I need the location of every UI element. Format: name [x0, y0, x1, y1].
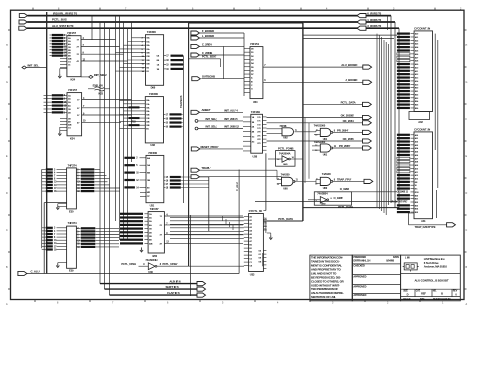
svg-text:Andover, MA 01810: Andover, MA 01810 [424, 265, 448, 269]
svg-text:INIT_SEL(: INIT_SEL( [206, 125, 217, 129]
svg-text:B50: B50 [153, 254, 158, 258]
flag PR_2064 [363, 130, 372, 134]
svg-text:6_IR IRS T0: 6_IR IRS T0 [367, 12, 381, 16]
IC U38 74F139 [251, 114, 263, 153]
wire PCTL_DATA heavy [303, 207, 399, 209]
svg-text:ALU_STAT IN T0: ALU_STAT IN T0 [52, 24, 74, 28]
bus PCTL_BUS [19, 20, 27, 24]
svg-text:INIT_SEL2: INIT_SEL2 [94, 73, 107, 77]
svg-text:FLAP IR 6: FLAP IR 6 [167, 291, 180, 295]
svg-text:ANBET: ANBET [202, 108, 211, 112]
svg-text:74F300: 74F300 [149, 92, 158, 96]
wire left feed vertical [41, 169, 43, 248]
svg-text:L_BOXED: L_BOXED [202, 34, 214, 38]
wire left vertical x46.7 [46, 12, 48, 274]
svg-text:PCTL_DATA: PCTL_DATA [341, 100, 356, 104]
flag L_BOXED [191, 36, 200, 40]
wire bundle left verticals [99, 22, 101, 284]
svg-text:PCTL_UFSH': PCTL_UFSH' [163, 262, 178, 266]
wire vertical TRAPBUS x183.6 [183, 56, 185, 203]
svg-text:O_1968 11: O_1968 11 [397, 190, 409, 194]
wire C_2RNB branch [189, 58, 221, 60]
svg-text:PR_2065': PR_2065' [339, 144, 351, 148]
svg-text:74F300: 74F300 [147, 30, 156, 34]
svg-text:74F374: 74F374 [68, 221, 77, 225]
svg-text:74F157: 74F157 [150, 207, 159, 211]
svg-text:OK_2055B': OK_2055B' [341, 113, 355, 117]
bus ALU_STAT IN T0 [19, 26, 27, 30]
wire U31 outputs vertical [208, 177, 210, 231]
svg-text:CYCOUNT_IN: CYCOUNT_IN [414, 26, 430, 30]
wire lines x302.9 to bundle [303, 34, 397, 36]
svg-text:K23: K23 [99, 92, 104, 96]
flag PCTL_DATA [363, 102, 372, 106]
IC U32 74F300 [145, 97, 163, 143]
svg-text:GND: GND [321, 204, 326, 206]
svg-text:74F151: 74F151 [250, 42, 259, 46]
bus SHIFT IR 6 [105, 288, 198, 290]
svg-text:U64: U64 [253, 100, 258, 104]
svg-text:1G: 1G [252, 136, 255, 138]
svg-text:U61: U61 [323, 153, 328, 157]
svg-text:W: W [415, 185, 417, 187]
svg-text:74AS004H: 74AS004H [145, 258, 157, 262]
svg-text:A32: A32 [418, 120, 423, 124]
svg-text:PCTL_FONB: PCTL_FONB [278, 147, 294, 151]
svg-text:INIT_2068 12: INIT_2068 12 [224, 125, 239, 129]
svg-text:APPROVED: APPROVED [353, 285, 366, 288]
wire gate feeds [267, 128, 283, 130]
svg-text:SHIFT IR 6: SHIFT IR 6 [166, 285, 179, 289]
svg-text:1_IR IRS T0: 1_IR IRS T0 [367, 18, 381, 22]
svg-text:INIT_2064 5: INIT_2064 5 [224, 117, 238, 121]
svg-text:D: D [407, 293, 409, 297]
svg-text:TRAPBUS: TRAPBUS [179, 95, 183, 108]
svg-text:H: H [466, 44, 468, 47]
flag TRAPL [191, 168, 200, 172]
IC U31 74F300 [146, 155, 164, 202]
svg-text:74AS00: 74AS00 [322, 172, 331, 176]
svg-text:OK_2064: OK_2064 [343, 119, 355, 123]
svg-text:GND: GND [283, 164, 288, 166]
svg-text:C: C [466, 229, 468, 232]
wire U24 outputs [81, 39, 116, 41]
flag F_BOXED [191, 31, 200, 35]
svg-text:PCTL_BUS: PCTL_BUS [52, 18, 67, 22]
wire 74F139 to U33 vertical [265, 153, 267, 210]
svg-text:TRAPL': TRAPL' [201, 166, 211, 170]
svg-text:U60: U60 [323, 186, 328, 190]
flag 6_IR IRS T0 [357, 14, 366, 18]
svg-text:TRAP_FPU': TRAP_FPU' [337, 178, 352, 182]
svg-text:C_ALU: C_ALU [235, 182, 239, 191]
svg-text:DATE: DATE [393, 256, 400, 259]
flag OK_2064 [363, 121, 372, 125]
ground arrow U24 [58, 74, 61, 78]
wire PCTL_DATA flag line [303, 103, 363, 105]
wire bundle right verticals [376, 34, 378, 207]
svg-text:E30: E30 [69, 209, 74, 213]
IC E39 74F374 [67, 226, 77, 268]
svg-text:O_1968: O_1968 [340, 187, 350, 191]
svg-text:U60: U60 [283, 187, 288, 191]
flag C_ALU [18, 271, 27, 275]
svg-text:D: D [466, 192, 468, 195]
svg-text:K34: K34 [70, 137, 75, 141]
flag OK_2055B [363, 115, 372, 119]
wire E39 clock stubs [58, 262, 67, 264]
svg-text:U62: U62 [283, 136, 288, 140]
wire O_1968 row [352, 191, 397, 193]
svg-text:K24: K24 [71, 77, 76, 81]
flag TRAP_DATATYPE [447, 223, 456, 227]
svg-text:ALU_BOXED: ALU_BOXED [341, 63, 357, 67]
svg-text:APPROVED: APPROVED [353, 275, 366, 278]
svg-text:DRFRANHL.1H: DRFRANHL.1H [353, 258, 370, 262]
wire ALU_BOXED out [263, 66, 363, 68]
svg-text:PCTL_UFSH: PCTL_UFSH [121, 262, 136, 266]
wire TRAP_FPU out [332, 180, 364, 182]
svg-text:INIT_SEL(: INIT_SEL( [206, 117, 217, 121]
IC U64 74F151 [250, 47, 263, 99]
svg-text:RESET_PROC': RESET_PROC' [201, 145, 219, 149]
svg-text:U38: U38 [253, 154, 258, 158]
svg-text:PCTL_DATA: PCTL_DATA [278, 217, 293, 221]
svg-text:PR_2064': PR_2064' [337, 129, 349, 133]
title block logo cell [401, 255, 461, 301]
bus AUX IR 6 [100, 283, 197, 285]
wire staircase B50 to U33 [170, 216, 244, 218]
svg-text:INIT_SEL.: INIT_SEL. [28, 64, 40, 68]
svg-text:A/B: A/B [68, 57, 72, 60]
flag 1_IR IRS T0 [357, 20, 366, 24]
wire R_DATATYPE row [255, 201, 397, 203]
wire right of ICs [436, 190, 438, 218]
wire J_BOXED out [263, 81, 363, 83]
title block scale row [401, 296, 461, 298]
IC E30 74F374 [67, 168, 77, 209]
IC U24 74F157 [67, 36, 81, 77]
ground arrow U33 [269, 236, 272, 240]
svg-text:CHECKED: CHECKED [353, 265, 365, 268]
svg-text:B: B [441, 292, 443, 296]
IC U66 74F300 [146, 35, 164, 86]
wire E30 clock stubs [58, 203, 67, 205]
svg-text:J_BOXED: J_BOXED [345, 78, 357, 82]
svg-text:ALU CONTROL, B BOX BIT: ALU CONTROL, B BOX BIT [415, 279, 449, 283]
svg-text:NO.: NO. [433, 291, 437, 293]
svg-text:D: D [6, 192, 8, 195]
inverter box 74AS804 [314, 192, 351, 205]
IC A32 notch [409, 112, 430, 120]
svg-text:AUX IR 6: AUX IR 6 [169, 280, 181, 284]
svg-text:1G: 1G [68, 61, 71, 63]
svg-text:OUTBOXB: OUTBOXB [202, 75, 215, 79]
svg-text:74AS1000: 74AS1000 [314, 123, 326, 127]
svg-text:MR: MR [147, 192, 151, 194]
svg-text:CYCOUNT_IN: CYCOUNT_IN [414, 127, 430, 131]
flag OUTBOXB [192, 77, 201, 81]
wire enclosure heavy [188, 23, 190, 266]
svg-text:CYCTL_30: CYCTL_30 [249, 209, 263, 213]
IC B50 74F157 [148, 212, 164, 253]
svg-text:1G: 1G [68, 128, 71, 130]
bus IR10 IRL, IR IRS T0 [19, 14, 27, 18]
wire PCTL_DATA from U33 [263, 220, 303, 222]
svg-text:U33: U33 [250, 273, 255, 277]
svg-text:C_ALU: C_ALU [31, 269, 40, 273]
svg-text:U32: U32 [150, 143, 155, 147]
flag OK_2065 [363, 139, 372, 143]
flag ANBET [191, 110, 200, 114]
wire PR_2064 out [332, 131, 363, 133]
ground arrow K34 [58, 132, 61, 136]
svg-text:C_2RE4: C_2RE4 [202, 42, 212, 46]
svg-text:PCTL_DATA: PCTL_DATA [338, 205, 353, 209]
svg-text:INIT_ALU' 4: INIT_ALU' 4 [224, 108, 238, 112]
svg-text:REF: REF [421, 292, 426, 296]
flag TRAPL2 [191, 175, 200, 179]
svg-text:NTA: NTA [420, 298, 425, 301]
svg-text:74F300: 74F300 [148, 151, 157, 155]
svg-text:G: G [6, 81, 8, 84]
pin INIT_2068 [195, 127, 198, 130]
flag 3_IR IRS T0 [357, 26, 366, 30]
svg-text:OK_2065: OK_2065 [343, 137, 355, 141]
flag TRAP_FPU [364, 179, 373, 183]
svg-text:SIZE: SIZE [403, 291, 408, 293]
svg-text:74F139: 74F139 [251, 110, 260, 114]
svg-text:74F157: 74F157 [68, 88, 77, 92]
svg-text:E39: E39 [69, 269, 74, 273]
legal notice block [310, 255, 353, 301]
svg-text:D66: D66 [151, 86, 156, 90]
svg-text:A31: A31 [421, 219, 426, 223]
bus FLAP IR 6 [110, 294, 198, 296]
svg-text:IR10 IRL, IR IRS T0: IR10 IRL, IR IRS T0 [53, 11, 77, 15]
svg-text:SCALE: SCALE [403, 298, 411, 301]
wire RESET_PROC [191, 147, 200, 151]
svg-text:2G: 2G [252, 141, 255, 143]
IC K34 74F157 [67, 93, 82, 136]
svg-text:U36: U36 [148, 270, 153, 274]
flag C_2RE4 [191, 44, 200, 48]
svg-text:74F374: 74F374 [68, 163, 77, 167]
svg-text:CAT.: CAT. [416, 290, 421, 293]
svg-text:74AS804: 74AS804 [317, 192, 328, 196]
svg-text:SENTATIVE OF LMI.: SENTATIVE OF LMI. [311, 295, 336, 299]
svg-text:R_DATATYPE': R_DATATYPE' [392, 200, 408, 204]
flag C_2RNB [191, 53, 200, 57]
pin INIT_2064 [195, 120, 198, 123]
wire PR_2065 out [332, 147, 363, 149]
wire top-right bus turns [390, 16, 392, 203]
title block signature column [352, 255, 401, 301]
ground arrow B50 [140, 248, 143, 252]
flag INIT_SEL2 [89, 75, 93, 78]
flag J_BOXED [363, 80, 372, 84]
svg-text:C: C [6, 229, 8, 232]
border tick marks [32, 8, 34, 11]
flag ALU_BOXED [363, 65, 372, 69]
wire U33 right verticals [262, 253, 264, 266]
title block size row [401, 288, 461, 290]
svg-text:SHEET 34 OF 60: SHEET 34 OF 60 [433, 298, 451, 301]
svg-text:A/B: A/B [68, 124, 72, 127]
flag INIT_SEL left [22, 66, 26, 69]
svg-text:74AS00: 74AS00 [281, 172, 290, 176]
svg-text:APPROVED: APPROVED [353, 294, 366, 297]
svg-text:G: G [466, 81, 468, 84]
svg-text:8/04/86: 8/04/86 [386, 258, 394, 262]
IC U33 CYCTL_30 [249, 214, 264, 272]
wire C_ALU vertical mid [238, 170, 240, 274]
flag PR_2065 [363, 146, 372, 150]
wire TRAP_DATATYPE [409, 212, 415, 214]
svg-text:L M I: L M I [405, 255, 411, 259]
svg-text:REV: REV [453, 291, 458, 293]
border frame [11, 10, 465, 299]
svg-text:3_IR IRS T0: 3_IR IRS T0 [367, 24, 381, 28]
svg-text:F_BOXED: F_BOXED [202, 29, 214, 33]
svg-text:74AS004A: 74AS004A [279, 151, 291, 155]
svg-text:A/B: A/B [149, 242, 153, 245]
svg-text:O_1968': O_1968' [334, 196, 344, 200]
svg-text:TRAP_DATATYPE: TRAP_DATATYPE [415, 225, 436, 229]
wire U31 bottom stubs [140, 191, 146, 193]
svg-text:H: H [6, 44, 8, 47]
wire K34 outputs [82, 98, 132, 100]
